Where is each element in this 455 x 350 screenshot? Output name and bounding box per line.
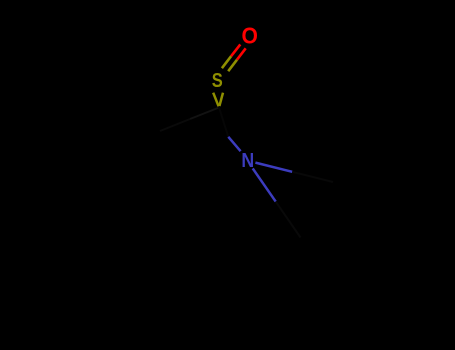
bond C1-phenyl far segment (carbon, near-black) <box>160 119 190 131</box>
wire ring B inner 1 <box>307 246 351 249</box>
wire ring A bond 1 <box>152 131 161 189</box>
wire ring A bond 5 <box>59 94 114 116</box>
wire ring B inner 2 <box>362 285 382 325</box>
wire ring B inner 3 <box>289 293 314 330</box>
wire ring B bond 3 <box>367 284 393 337</box>
bond N-CH3 carbon half (near-black) <box>292 172 333 182</box>
bond C1-phenyl near segment (carbon, faint) <box>190 108 219 120</box>
svg-text:N: N <box>241 149 254 172</box>
wire ring A inner 3 <box>67 106 108 123</box>
wire ring B bond 6 <box>275 239 301 292</box>
wire ring A bond 4 <box>50 116 59 174</box>
double bond S=O line A oxygen half (red) <box>231 44 240 56</box>
phenyl ring B (carbon bonds, near-black) <box>275 235 393 341</box>
svg-text:S: S <box>212 70 223 92</box>
wire ring A bond 6 <box>114 94 160 131</box>
wire ring A inner 1 <box>144 139 150 183</box>
double bond S=O line B sulfur half (olive) <box>228 60 237 71</box>
wire ring B bond 4 <box>308 337 367 341</box>
bond C1-N carbon half (near-black) <box>219 107 229 137</box>
double bond S=O line A sulfur half (olive) <box>222 56 231 68</box>
wire ring B bond 2 <box>360 235 393 284</box>
bond N-CH3 nitrogen half (blue) <box>255 163 292 172</box>
bond N-CH2 carbon half (near-black) <box>276 202 301 238</box>
bond N-CH2 nitrogen half (blue) <box>253 168 276 201</box>
svg-text:O: O <box>242 23 258 49</box>
wire ring A bond 3 <box>50 175 96 212</box>
double bond C1=S (olive V) <box>213 93 223 107</box>
phenyl ring A (carbon bonds, near-black) <box>50 94 160 211</box>
wire ring A inner 2 <box>64 173 99 200</box>
wire ring A bond 2 <box>97 189 152 211</box>
wire ring B bond 1 <box>301 235 360 239</box>
bond C1-N nitrogen half (blue) <box>228 137 240 151</box>
double bond S=O line B oxygen half (red) <box>237 48 246 59</box>
wire ring B bond 5 <box>275 292 308 341</box>
